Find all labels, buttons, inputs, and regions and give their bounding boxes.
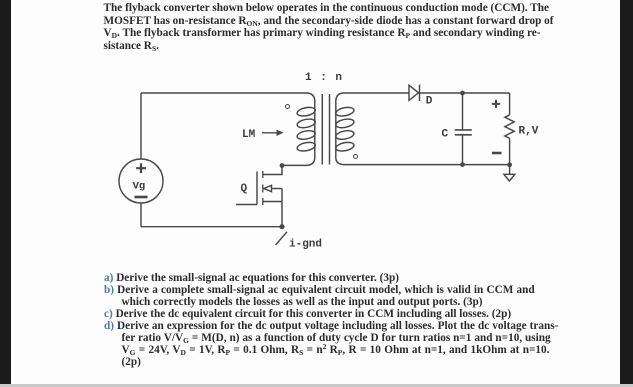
ground symbol triangle xyxy=(504,174,515,181)
capacitor C wire top xyxy=(462,93,464,130)
MOSFET gate vertical line xyxy=(256,172,258,205)
diode cathode bar xyxy=(419,85,421,101)
svg-text:R,V: R,V xyxy=(519,126,539,138)
Vg plus sign xyxy=(136,163,146,173)
Vg minus sign xyxy=(135,196,148,199)
primary polarity dot xyxy=(286,105,290,109)
MOSFET gate lead xyxy=(236,204,257,206)
primary loop 4 xyxy=(296,141,316,152)
diode D triangle xyxy=(409,85,419,100)
wire right branch down to resistor xyxy=(509,93,511,115)
secondary loop 2 xyxy=(335,118,355,129)
wire primary bottom to drain node xyxy=(282,164,306,166)
wire top rail to primary winding xyxy=(141,92,306,94)
bottom gray strip xyxy=(0,384,633,387)
wire Vg top to top rail xyxy=(140,93,142,159)
MOSFET source to bottom rail xyxy=(281,189,283,227)
LM arrow xyxy=(262,132,279,134)
secondary loop 1 xyxy=(335,106,355,117)
svg-text:LM: LM xyxy=(242,129,256,141)
secondary bottom rail wire xyxy=(344,164,510,166)
ground stub xyxy=(509,165,511,175)
wire diode to output node xyxy=(420,92,510,94)
wire secondary top to diode xyxy=(344,92,409,94)
secondary loop 3 xyxy=(335,129,355,140)
svg-text:Q: Q xyxy=(241,183,248,195)
top paragraph xyxy=(104,2,550,14)
resistor R zigzag xyxy=(505,115,514,139)
svg-text:i-gnd: i-gnd xyxy=(289,239,322,251)
node: source junction on bottom rail xyxy=(279,224,284,229)
primary loop 1 xyxy=(296,106,316,117)
voltage source Vg circle xyxy=(119,159,163,203)
transformer core lines xyxy=(322,94,329,165)
primary bottom rail wire xyxy=(141,226,282,228)
wire resistor to bottom rail xyxy=(509,138,511,164)
i-gnd tick slash xyxy=(276,232,288,245)
right dark sidebar xyxy=(620,0,633,384)
primary winding of transformer with LM loops xyxy=(306,93,315,165)
secondary polarity dot xyxy=(354,155,358,159)
node: bottom of capacitor xyxy=(460,162,465,167)
MOSFET source lead xyxy=(263,201,282,203)
MOSFET channel bar middle xyxy=(262,185,264,193)
left dark sidebar xyxy=(0,0,11,384)
MOSFET body lead xyxy=(272,188,283,190)
bottom list xyxy=(104,272,399,284)
circuit schematic SVG xyxy=(0,0,633,270)
MOSFET channel bar bottom xyxy=(262,198,264,205)
capacitor C wire bottom xyxy=(462,135,464,165)
Vg bottom wire xyxy=(140,203,142,227)
node: top of capacitor xyxy=(460,91,465,96)
svg-text:1 : n: 1 : n xyxy=(305,72,343,84)
secondary winding of transformer xyxy=(336,93,344,165)
output minus sign xyxy=(492,152,502,155)
primary loop 2 xyxy=(296,118,316,129)
svg-text:D: D xyxy=(426,96,433,108)
capacitor C plates xyxy=(455,130,472,135)
primary loop 3 xyxy=(296,129,316,140)
node: drain junction xyxy=(280,163,285,168)
svg-text:C: C xyxy=(442,129,449,141)
MOSFET Q drain lead xyxy=(263,166,282,175)
output plus sign xyxy=(492,100,500,108)
svg-text:Vg: Vg xyxy=(133,181,146,193)
node: bottom of load xyxy=(507,162,512,167)
MOSFET body arrow xyxy=(264,185,272,191)
secondary loop 4 xyxy=(335,141,355,152)
MOSFET channel bar top xyxy=(262,171,264,178)
